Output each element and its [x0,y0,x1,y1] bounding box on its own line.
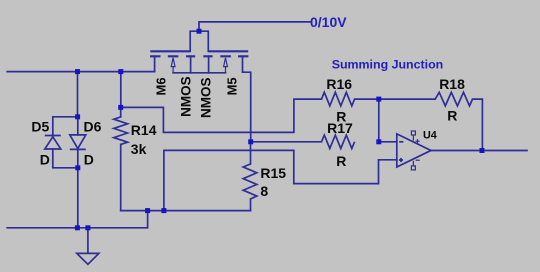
wire R18 right lead feedback [473,99,483,150]
transistor M6 [150,51,195,56]
resistor R15 [243,164,257,199]
wire M5 drain to summing node [243,56,251,142]
wire M5 source stub [208,56,210,73]
wire M6 source stub [190,56,192,73]
svg-text:U4: U4 [423,130,437,142]
junction dot summing node R15/R17 [248,139,253,144]
wire R17 right lead to op-amp minus [379,141,397,143]
junction dot ground bus diodes [75,225,80,230]
wire M6 drain stub [154,56,156,71]
svg-text:Summing Junction: Summing Junction [332,57,444,71]
junction dot R16/R18 [376,97,381,102]
wire riser to diode pair [77,72,79,117]
ground [77,253,99,264]
wire R15 bottom lead [250,199,252,211]
wire R14 bottom lead [120,144,122,210]
svg-text:R14: R14 [131,122,157,138]
svg-text:D6: D6 [84,119,102,135]
svg-text:NMOS: NMOS [179,76,194,117]
junction dot gate tie [197,29,202,34]
svg-text:D5: D5 [31,119,49,135]
transistor M5 bulk arrow [224,58,228,73]
svg-text:8: 8 [260,183,268,199]
svg-text:R18: R18 [439,76,465,92]
wire D6 bottom to ground bus [77,149,79,227]
resistor R17 [322,135,355,148]
diode D6 [70,135,86,150]
svg-text:NMOS: NMOS [199,77,214,118]
svg-text:M6: M6 [154,77,169,95]
svg-text:0/10V: 0/10V [310,14,347,30]
junction dot output feedback [480,148,485,153]
wire bottom rail R14 to R15 [121,210,251,212]
svg-text:R15: R15 [260,165,286,181]
wire ground stub [87,228,89,253]
wire R17 left lead [251,141,322,143]
wire op-amp output [431,150,527,152]
junction dot bottom rail ground jog [145,208,150,213]
junction dot input/R14 [118,69,123,74]
wire 0/10V gate feed [199,22,310,31]
svg-text:R: R [336,153,346,169]
transistor M5 [203,51,248,56]
junction dot bottom rail node B [161,208,166,213]
wire main input bus [7,71,154,73]
wire riser to R14 [120,72,122,108]
diode D5 [45,136,61,150]
svg-text:M5: M5 [224,77,239,95]
transistor M6 bulk arrow [171,58,175,73]
op-amp U4 [397,134,431,167]
junction dot diode top [75,114,80,119]
resistor R16 [322,92,355,106]
resistor R14 [114,117,128,144]
svg-text:R: R [447,108,457,124]
resistor R18 [435,92,472,106]
svg-text:D: D [40,151,50,167]
wire node A: R14 top to R16 left [121,99,322,132]
wire diode bottom rail [53,149,78,168]
op-amp plus input mark [399,158,403,162]
wire R15 top lead [250,142,252,164]
wire D6 top lead [77,117,79,135]
junction dot input/diodes [75,69,80,74]
junction dot R14 top [118,105,123,110]
junction dot R17/minus input [376,139,381,144]
junction dot ground bus stub [85,225,90,230]
op-amp V+ power pin [411,131,419,143]
wire R16 right lead [355,98,379,100]
wire gate tie bar [190,31,208,51]
wire node B: bottom rail to op-amp + input [164,150,397,210]
op-amp V- power pin [411,160,419,170]
svg-text:D: D [84,151,94,167]
op-amp minus input mark [399,141,403,143]
svg-text:3k: 3k [131,141,147,157]
wire R14 top lead [120,107,122,117]
wire source tie rail [173,72,225,74]
junction dot diode bottom [75,165,80,170]
wire R18 left lead [379,98,435,100]
wire diode top rail [53,117,78,136]
wire summing junction riser [378,99,380,142]
svg-text:R17: R17 [327,120,353,136]
wire jog to ground bus [7,211,147,228]
svg-text:R16: R16 [326,76,352,92]
